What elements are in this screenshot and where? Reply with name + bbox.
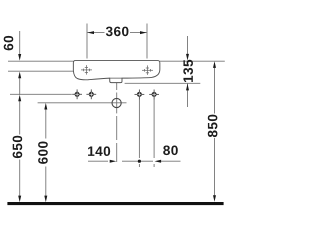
dimension 135 line <box>187 36 189 107</box>
arrow 850 bottom (down) <box>213 195 216 202</box>
label 650 <box>13 136 23 158</box>
arrow 140 (right, at drain line) <box>110 160 117 163</box>
label 360 <box>106 27 129 37</box>
dimension 60 vertical line <box>20 31 46 196</box>
supply height line 650 <box>10 93 72 95</box>
floor line <box>7 202 223 205</box>
arrow 600 bottom (down) <box>44 196 47 203</box>
arrow 80 (left, at outer line) <box>155 160 162 163</box>
label 80 <box>163 145 178 155</box>
drain center vertical dashed line <box>116 72 118 162</box>
dimension 850 line <box>214 63 216 196</box>
supply point inner-right <box>135 90 145 100</box>
dimension 600 line <box>45 109 47 139</box>
dimension 140-80 line <box>88 160 181 162</box>
arrow 135 bottom (up) <box>186 84 189 91</box>
arrow 650 bottom (down) <box>18 196 21 203</box>
360 extension lines <box>87 24 147 59</box>
dot shared 140/80 <box>138 160 141 163</box>
drain circle <box>112 98 121 107</box>
label 60 <box>4 36 14 50</box>
supply point outer-right <box>149 90 159 100</box>
dimension 650 line <box>19 100 21 135</box>
dimension 360 line <box>87 32 105 34</box>
arrowheads <box>18 31 216 202</box>
right fixing extension lines <box>139 99 154 167</box>
wall rim bottom line left <box>8 70 74 72</box>
supply point inner-left <box>86 89 96 99</box>
wall rim top line <box>8 61 225 103</box>
label 600 <box>38 141 48 163</box>
arrow 850 top (up) <box>213 61 216 68</box>
drain centerline horizontal <box>38 102 127 104</box>
basin outline <box>73 60 160 82</box>
drain tab notch detail <box>110 77 122 79</box>
arrow 600 top (up) <box>44 103 47 110</box>
arrow 60 bottom (up) <box>18 72 21 79</box>
arrow 650 top (up) <box>18 95 21 102</box>
basin underside reference line <box>125 82 201 84</box>
arrow 60 top (down) <box>18 54 21 61</box>
arrow 360 right <box>140 31 147 34</box>
basin fixing cross left <box>81 65 92 75</box>
label 850 <box>208 115 218 138</box>
arrow 360 left <box>87 31 94 34</box>
basin fixing cross right <box>142 65 153 75</box>
label 135 <box>183 60 193 82</box>
supply point outer-left <box>72 89 82 99</box>
label 140 <box>88 146 110 156</box>
arrow 135 top (down) <box>186 54 189 61</box>
